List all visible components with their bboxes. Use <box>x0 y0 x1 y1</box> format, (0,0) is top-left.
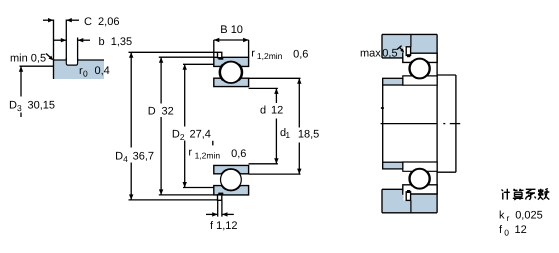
svg-text:B 10: B 10 <box>220 24 243 36</box>
svg-text:D: D <box>148 106 156 118</box>
svg-text:12: 12 <box>515 224 527 236</box>
svg-text:3: 3 <box>17 103 22 113</box>
svg-text:C 2,06: C 2,06 <box>84 16 119 28</box>
svg-text:30,15: 30,15 <box>28 100 56 112</box>
svg-text:27,4: 27,4 <box>190 128 211 140</box>
svg-text:0,6: 0,6 <box>293 48 308 60</box>
svg-text:min 0,5: min 0,5 <box>10 53 46 65</box>
svg-text:b 1,35: b 1,35 <box>99 36 133 48</box>
svg-text:0,4: 0,4 <box>95 65 110 77</box>
svg-text:D: D <box>115 150 123 162</box>
svg-text:0,5: 0,5 <box>382 47 397 59</box>
svg-text:0: 0 <box>504 228 509 238</box>
svg-text:4: 4 <box>123 154 128 164</box>
svg-text:r: r <box>188 146 192 158</box>
svg-text:0,025: 0,025 <box>515 210 543 222</box>
svg-text:1,2min: 1,2min <box>257 51 283 61</box>
svg-text:1,2min: 1,2min <box>195 150 221 160</box>
svg-text:r: r <box>251 48 255 60</box>
svg-text:32: 32 <box>162 106 174 118</box>
svg-text:max: max <box>360 47 381 59</box>
svg-text:0,6: 0,6 <box>231 148 246 160</box>
svg-text:r: r <box>507 213 510 223</box>
svg-text:D: D <box>9 100 17 112</box>
svg-text:1: 1 <box>285 130 290 140</box>
svg-text:36,7: 36,7 <box>133 150 154 162</box>
svg-text:2: 2 <box>180 132 185 142</box>
svg-text:12: 12 <box>271 105 283 117</box>
svg-text:d: d <box>260 105 266 117</box>
svg-text:k: k <box>499 210 505 222</box>
svg-text:D: D <box>172 128 180 140</box>
svg-text:f 1,12: f 1,12 <box>210 220 238 232</box>
svg-text:18,5: 18,5 <box>298 129 319 141</box>
svg-text:0: 0 <box>83 68 88 78</box>
